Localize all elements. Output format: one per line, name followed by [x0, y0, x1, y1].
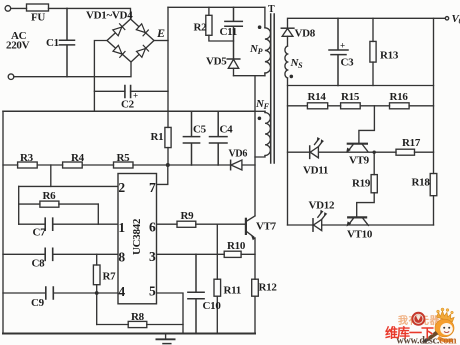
svg-text:R7: R7 [103, 271, 117, 283]
svg-text:C7: C7 [33, 227, 47, 239]
svg-text:VD8: VD8 [295, 27, 316, 39]
svg-text:C9: C9 [31, 297, 45, 309]
svg-text:R1: R1 [151, 131, 164, 143]
svg-text:VD12: VD12 [309, 200, 335, 212]
svg-text:R10: R10 [227, 240, 246, 252]
svg-text:2: 2 [118, 180, 125, 195]
svg-text:8: 8 [118, 250, 125, 265]
svg-text:VD11: VD11 [303, 165, 328, 177]
svg-text:R14: R14 [308, 91, 327, 103]
svg-text:R6: R6 [43, 190, 57, 202]
svg-text:C3: C3 [341, 57, 355, 69]
svg-text:VD5: VD5 [206, 56, 227, 68]
svg-text:6: 6 [149, 220, 156, 235]
svg-text:C11: C11 [220, 26, 237, 38]
svg-text:VT9: VT9 [349, 155, 370, 167]
svg-text:R2: R2 [194, 22, 208, 34]
svg-text:C8: C8 [32, 258, 46, 270]
svg-text:UC3842: UC3842 [131, 218, 143, 255]
svg-text:www.dzsc.com: www.dzsc.com [397, 336, 458, 345]
svg-text:R15: R15 [341, 91, 360, 103]
svg-text:7: 7 [149, 180, 156, 195]
svg-text:NP: NP [249, 43, 263, 56]
svg-text:R8: R8 [131, 311, 145, 323]
svg-text:4: 4 [118, 284, 125, 299]
svg-text:R16: R16 [390, 91, 409, 103]
svg-text:C10: C10 [203, 300, 222, 312]
svg-text:C4: C4 [220, 124, 234, 136]
svg-text:R13: R13 [380, 50, 399, 62]
svg-text:R3: R3 [20, 152, 34, 164]
svg-text:R19: R19 [352, 178, 371, 190]
svg-text:R12: R12 [259, 282, 278, 294]
svg-text:1: 1 [118, 220, 125, 235]
svg-text:+: + [340, 41, 345, 51]
svg-text:+: + [133, 91, 138, 101]
svg-text:3: 3 [149, 249, 156, 264]
svg-text:R5: R5 [117, 152, 131, 164]
svg-text:220V: 220V [6, 40, 30, 52]
svg-text:VD1~VD4: VD1~VD4 [86, 10, 133, 22]
svg-text:NS: NS [290, 57, 304, 70]
svg-text:E: E [156, 26, 165, 40]
svg-text:R17: R17 [402, 137, 421, 149]
svg-text:R11: R11 [224, 285, 241, 297]
svg-text:R4: R4 [71, 152, 85, 164]
svg-text:NF: NF [255, 98, 270, 111]
svg-text:R9: R9 [181, 210, 195, 222]
svg-text:VD6: VD6 [229, 149, 248, 160]
svg-text:FU: FU [31, 12, 45, 24]
svg-text:C5: C5 [193, 124, 207, 136]
svg-text:VT10: VT10 [347, 229, 373, 241]
svg-text:VT7: VT7 [256, 221, 277, 233]
svg-text:5: 5 [149, 284, 156, 299]
svg-text:V0: V0 [452, 13, 460, 26]
svg-text:R18: R18 [412, 177, 431, 189]
svg-text:T: T [268, 4, 275, 15]
svg-text:C1: C1 [46, 37, 59, 49]
